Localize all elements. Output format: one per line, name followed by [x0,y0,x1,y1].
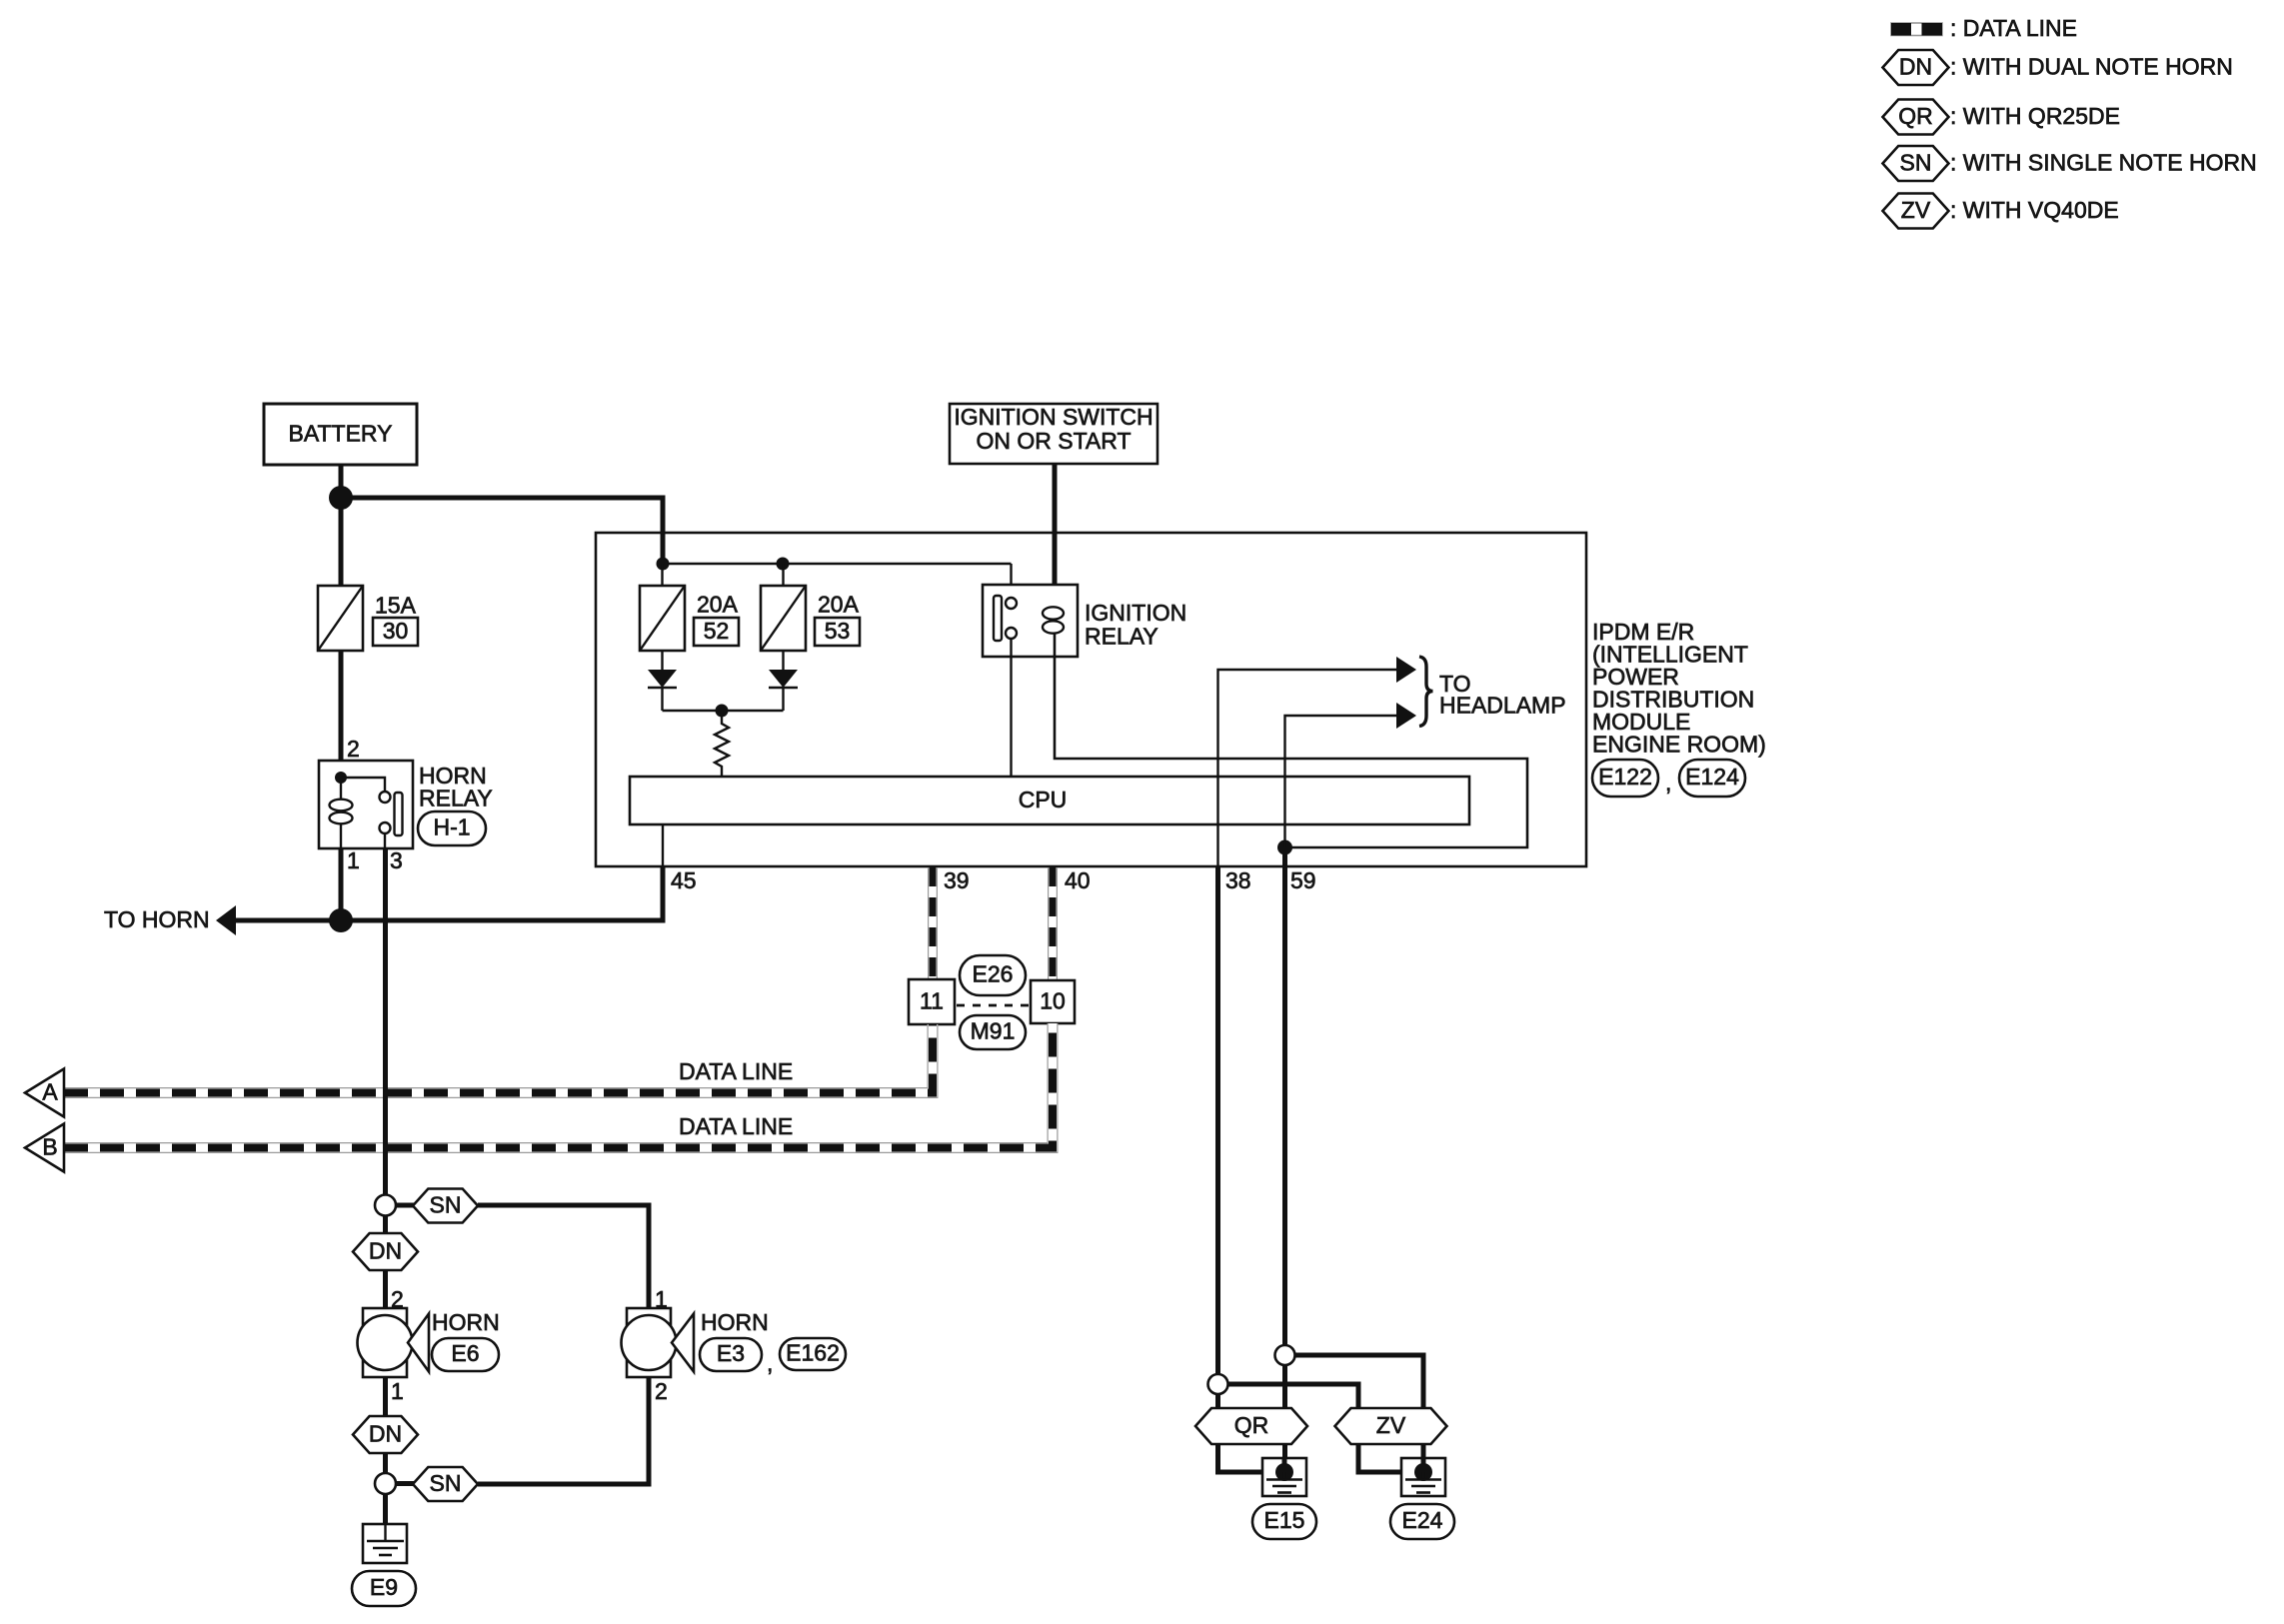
connector oval E124 [1679,760,1745,797]
comma between E3 E162 [767,1350,773,1376]
svg-text:59: 59 [1290,867,1316,893]
wire SN lower to right horn pin 2 [478,1377,649,1484]
label data line B [679,1113,793,1139]
connector oval E122 [1592,760,1658,797]
svg-text:15A: 15A [375,592,417,618]
ignition relay contact bar [994,596,1002,641]
wire fuse row to ignition relay contact [1010,564,1012,598]
svg-text:QR: QR [1898,103,1933,129]
svg-text:39: 39 [944,867,970,893]
wire splice lower to SN hexagon [396,1481,414,1486]
ground E24 [1401,1458,1445,1496]
hexagon DN upper [353,1233,418,1270]
battery B1 [264,404,417,465]
svg-text:,: , [1665,770,1671,796]
svg-text:,: , [767,1350,773,1376]
label IGNITION RELAY [1085,600,1186,650]
svg-text:DN: DN [369,1420,402,1446]
svg-text:A: A [42,1078,58,1104]
pin 2 label right horn [655,1378,668,1404]
svg-text:H-1: H-1 [433,814,470,840]
svg-text:20A: 20A [697,591,739,617]
wire to fuse 53 [782,564,784,586]
brace to headlamp [1419,657,1433,727]
svg-text:40: 40 [1065,867,1091,893]
svg-text:DN: DN [369,1237,402,1263]
label HORN RELAY [419,763,493,812]
IPDM E/R box [596,533,1586,866]
svg-text:E122: E122 [1598,764,1652,790]
wire battery junction to IPDM feed [341,498,663,564]
connector oval E3 [700,1338,762,1371]
svg-text:CPU: CPU [1019,787,1068,812]
wire diodes merge [663,710,784,712]
svg-text:45: 45 [671,867,697,893]
svg-text:1: 1 [391,1378,404,1404]
hexagon QR [1195,1408,1307,1444]
svg-text:20A: 20A [818,591,860,617]
legend hexagon SN [1883,146,1949,181]
ignition relay box [983,585,1078,657]
svg-text:53: 53 [825,618,851,644]
svg-text:E124: E124 [1685,764,1739,790]
wire splice lower to ground E9 [383,1494,388,1524]
wire diode53 down [782,688,784,711]
svg-text:TO HORN: TO HORN [104,906,210,932]
svg-text:E9: E9 [370,1574,398,1600]
wire horn feed crossing data lines [383,1081,388,1161]
horn relay H-1 box [319,761,413,848]
legend text DN [1950,53,2233,79]
svg-text:38: 38 [1225,867,1251,893]
ignition relay contact circles [1006,598,1017,639]
label HORN right [701,1309,769,1335]
wire SN upper to right horn pin 1 [478,1205,649,1308]
wire horn relay pin 3 down to horns [383,848,388,1195]
svg-text:DN: DN [1899,53,1932,79]
svg-text:: WITH VQ40DE: : WITH VQ40DE [1950,197,2119,223]
wire battery junction down to fuse 30 [339,498,344,586]
dotted link 11 to 10 [957,1004,1029,1007]
svg-text:SN: SN [430,1470,462,1496]
label 20A fuse53 [818,591,860,617]
arrow node B [25,1124,64,1172]
resistor R1 [715,711,729,777]
hexagon SN upper [413,1189,478,1223]
wire ZV left leg to ground [1358,1409,1418,1472]
svg-text:E15: E15 [1264,1507,1305,1533]
label 20A fuse52 [697,591,739,617]
svg-text:RELAY: RELAY [1085,623,1158,649]
node horn feed junction [329,908,353,932]
arrow to headlamp lower [1396,703,1416,729]
pin 1 label left horn [391,1378,404,1404]
horn E6 [358,1308,430,1377]
pin 59 [1285,847,1316,1345]
svg-text:ZV: ZV [1376,1412,1406,1438]
node diode merge [716,705,729,718]
svg-text:E162: E162 [786,1340,840,1366]
ground E9 [363,1524,407,1563]
svg-text:2: 2 [655,1378,668,1404]
pin 3 label horn relay [390,847,403,873]
wire splice to SN hexagon [396,1203,414,1208]
horn E3 [622,1308,695,1377]
svg-text:ON OR START: ON OR START [976,428,1131,454]
pin 2 label left horn [391,1286,404,1312]
label 52 box [694,618,739,646]
svg-text:52: 52 [704,618,730,644]
svg-text:: WITH QR25DE: : WITH QR25DE [1950,103,2120,129]
wire ignition switch to relay coil [1053,464,1058,609]
data line A wire [64,1024,933,1093]
ground E15 [1262,1458,1306,1496]
connector oval E15 [1252,1504,1316,1539]
svg-text:: DATA LINE: : DATA LINE [1950,15,2077,41]
wire pin59 splice to ZV [1295,1355,1424,1409]
wire pin38 splice to ZV [1228,1384,1359,1409]
svg-text:2: 2 [347,736,360,762]
pin 10 box [1031,980,1075,1023]
connector oval E24 [1390,1504,1454,1539]
pin 45 [663,824,697,893]
svg-text:ENGINE ROOM): ENGINE ROOM) [1592,731,1766,757]
data line B wire [64,1023,1053,1148]
fuse 53 (20A) [761,586,806,651]
fuse 30 (15A) [318,586,363,651]
wire fuse 30 to horn relay pin 2 [339,651,344,778]
connector oval E162 [780,1338,846,1370]
node SN splice lower [375,1473,396,1494]
svg-text:B: B [42,1133,57,1159]
svg-text:BATTERY: BATTERY [289,420,393,446]
wire diode52 down [661,688,663,711]
horn relay coil [330,778,353,848]
legend hexagon ZV [1883,194,1949,229]
wire splice to DN hexagon [383,1215,388,1308]
wire to fuse 52 [661,564,663,586]
svg-text:DATA LINE: DATA LINE [679,1113,793,1139]
wire fuse row [663,563,1012,565]
svg-text:1: 1 [347,847,360,873]
svg-text:RELAY: RELAY [419,785,493,811]
legend text ZV [1950,197,2119,223]
wire battery to junction [339,465,344,499]
label data line A [679,1058,793,1084]
legend text QR [1950,103,2120,129]
ignition switch box [950,404,1157,464]
label TO HEADLAMP [1439,671,1566,719]
svg-text:: WITH SINGLE NOTE HORN: : WITH SINGLE NOTE HORN [1950,149,2257,175]
fuse 52 (20A) [640,586,685,651]
wire fuse 53 to diode [782,651,784,670]
node SN splice upper [375,1195,396,1216]
svg-text:M91: M91 [971,1018,1016,1044]
svg-text:SN: SN [1900,149,1932,175]
pin 11 box [909,979,955,1024]
wire pin38 through QR to ground [1218,1394,1280,1472]
legend hexagon QR [1883,100,1949,135]
horn relay internal node pin2 [335,772,347,784]
wire ZV right leg to ground E24 [1421,1409,1426,1470]
legend hexagon DN [1883,50,1949,85]
label 30 box [373,618,418,646]
hexagon DN lower [353,1416,418,1453]
wire pin59 through QR to ground E15 [1282,1365,1287,1470]
connector oval M91 [960,1015,1026,1049]
arrow to headlamp upper [1396,657,1416,683]
hexagon ZV [1335,1408,1447,1444]
label 53 box [815,618,860,646]
horn relay contact circles [380,792,391,833]
svg-text:HORN: HORN [432,1309,500,1335]
pin 40 dashed data line [1053,867,1091,980]
CPU box [630,777,1469,824]
wire pin 59 branch to headlamp [1285,716,1399,847]
wire left horn pin1 to DN lower [383,1377,388,1473]
svg-text:30: 30 [383,618,409,644]
node battery junction [329,486,353,510]
wire ignition relay coil to pin 59 node [1055,657,1527,847]
horn relay contact bar [395,793,403,835]
diode D53 [769,670,798,688]
svg-text:11: 11 [920,987,944,1013]
pin 2 label horn relay [347,736,360,762]
wire ignition relay contact to CPU [1010,639,1012,777]
connector oval H-1 [418,812,486,845]
svg-text:HEADLAMP: HEADLAMP [1439,692,1566,718]
svg-text:ZV: ZV [1901,197,1931,223]
arrow to horn [216,905,236,935]
label IPDM E/R [1592,619,1766,758]
pin 38 [1218,866,1251,1374]
diode D52 [648,670,677,688]
wire horn relay pin 1 down [339,848,344,920]
node above fuse 52 [657,558,670,571]
pin 1 label right horn [655,1286,668,1312]
node pin 38 splice [1208,1374,1228,1394]
horn relay contact to pin 3 [384,833,386,848]
legend data line symbol [1891,23,1942,36]
hexagon SN lower [413,1467,478,1501]
svg-text:E6: E6 [451,1340,479,1366]
horn relay internal wire to contact [341,778,385,792]
wire to-horn feed from pin 45 [232,866,663,920]
svg-text:QR: QR [1234,1412,1269,1438]
legend text data line [1950,15,2077,41]
svg-text:E3: E3 [717,1340,745,1366]
wire pin 38 branch to headlamp [1218,670,1399,866]
wire fuse 52 to diode [661,651,663,670]
svg-text:3: 3 [390,847,403,873]
label 15A [375,592,417,618]
pin 39 dashed data line [933,867,970,979]
svg-text:E26: E26 [973,961,1014,987]
svg-text:HORN: HORN [701,1309,769,1335]
node above fuse 53 [777,558,790,571]
connector oval E26 [960,955,1026,995]
connector oval E6 [432,1338,499,1371]
connector oval E9 [352,1571,416,1606]
legend text SN [1950,149,2257,175]
node pin 59 junction [1277,840,1292,855]
svg-text:10: 10 [1040,987,1066,1013]
svg-text:IGNITION: IGNITION [1085,600,1186,626]
comma between E122 E124 [1665,770,1671,796]
node pin 59 splice [1275,1345,1295,1365]
label HORN left [432,1309,500,1335]
pin 1 label horn relay [347,847,360,873]
label TO HORN [104,906,210,932]
svg-text:SN: SN [430,1191,462,1217]
svg-text:: WITH DUAL NOTE HORN: : WITH DUAL NOTE HORN [1950,53,2233,79]
arrow node A [25,1069,64,1117]
svg-text:E24: E24 [1402,1507,1443,1533]
svg-text:DATA LINE: DATA LINE [679,1058,793,1084]
svg-text:IGNITION SWITCH: IGNITION SWITCH [954,404,1152,430]
ignition relay coil [1043,607,1064,657]
